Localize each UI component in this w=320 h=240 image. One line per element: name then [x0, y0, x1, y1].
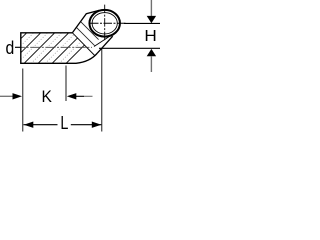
H top reference line	[124, 22, 160, 24]
pipe section hatching	[0, 33, 97, 64]
pipe section fine dashed hatch	[3, 33, 90, 64]
svg-text:L: L	[60, 113, 68, 133]
socket edge	[97, 36, 112, 53]
left extension line	[22, 69, 24, 132]
crosshair horizontal	[90, 22, 127, 24]
bend top edge	[72, 10, 99, 32]
elbow segment hatching	[62, 7, 117, 58]
K right extension line	[65, 66, 67, 102]
socket inner circle	[92, 13, 117, 34]
miter line	[72, 33, 95, 56]
pipe centerline d	[15, 46, 92, 48]
L right extension line	[101, 49, 103, 132]
pipe section outline	[21, 33, 98, 64]
H arrow down	[150, 0, 152, 16]
d leader line	[15, 46, 20, 48]
crosshair vertical	[104, 5, 106, 41]
svg-text:d: d	[5, 37, 14, 58]
svg-text:K: K	[42, 88, 52, 106]
socket inner miter	[94, 34, 114, 47]
H arrow up	[147, 49, 156, 56]
H bottom reference line	[99, 47, 160, 49]
svg-text:H: H	[144, 28, 156, 45]
L dimension	[24, 124, 58, 126]
socket circle	[89, 10, 120, 37]
K dimension	[0, 95, 13, 97]
